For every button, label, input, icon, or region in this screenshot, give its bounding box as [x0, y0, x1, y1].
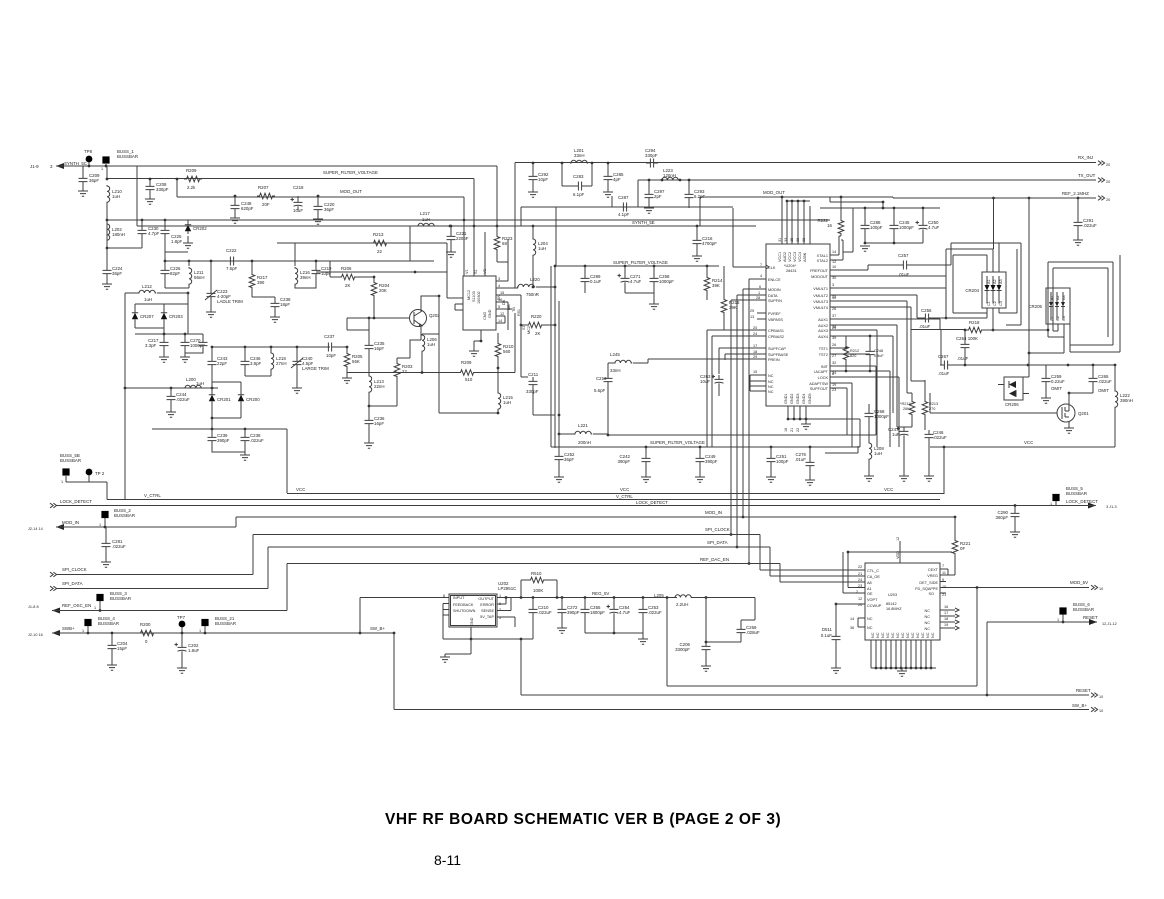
svg-text:.01uF: .01uF	[919, 324, 931, 329]
wire staircase right of rail	[825, 419, 860, 453]
junction TP8	[88, 165, 91, 168]
svg-text:TP7: TP7	[177, 615, 186, 620]
IC U204 box	[766, 244, 830, 406]
svg-text:CR207: CR207	[140, 314, 154, 319]
svg-text:GND1: GND1	[784, 393, 788, 404]
svg-text:CND: CND	[483, 312, 487, 320]
svg-text:C267: C267	[938, 354, 949, 359]
svg-text:BUSSBAR: BUSSBAR	[1066, 491, 1087, 496]
svg-text:9: 9	[942, 578, 944, 582]
U203 right pins	[940, 569, 977, 593]
svg-text:27nH: 27nH	[276, 361, 287, 366]
wire collector bus	[439, 296, 498, 413]
svg-text:R220: R220	[531, 314, 542, 319]
svg-text:AUX2: AUX2	[818, 324, 828, 328]
capacitor C287 4.1pF	[637, 180, 639, 207]
resistor R510 100K	[521, 580, 528, 598]
capacitor C264 .01uF	[964, 330, 966, 340]
wire XTAL cap rail	[820, 208, 940, 252]
svg-text:22: 22	[377, 249, 382, 254]
svg-text:39K: 39K	[712, 283, 720, 288]
svg-text:C248: C248	[874, 349, 883, 353]
U202 left pin stubs	[443, 604, 449, 640]
svg-text:56K: 56K	[352, 359, 360, 364]
svg-text:RESET: RESET	[1076, 688, 1091, 693]
wire RESET vertical	[986, 622, 988, 695]
svg-text:XTAL2: XTAL2	[817, 259, 828, 263]
svg-text:C1: C1	[987, 301, 991, 306]
svg-text:2: 2	[856, 590, 858, 594]
svg-text:NC: NC	[871, 632, 875, 638]
pin DATA	[737, 295, 766, 547]
wire L200 rail	[125, 387, 218, 389]
svg-text:22pF: 22pF	[217, 361, 227, 366]
svg-text:15: 15	[753, 370, 757, 374]
svg-text:1: 1	[1050, 502, 1052, 506]
wire cap row bottom	[865, 242, 923, 244]
transistor Q201 MOSFET	[1057, 404, 1075, 422]
svg-text:VREG: VREG	[927, 574, 938, 578]
capacitor C225 1.8pF	[164, 220, 166, 226]
svg-text:NC: NC	[881, 632, 885, 638]
diode CR202	[185, 222, 191, 234]
svg-text:10: 10	[1099, 709, 1103, 713]
svg-text:A3: A3	[1062, 295, 1066, 300]
bussbar BUSS_21	[201, 619, 208, 626]
svg-text:18: 18	[944, 617, 948, 621]
inductor L201 33nH	[570, 160, 588, 163]
svg-text:21: 21	[790, 428, 794, 432]
svg-text:VHF RF BOARD SCHEMATIC VER B (: VHF RF BOARD SCHEMATIC VER B (PAGE 2 OF …	[385, 811, 781, 828]
svg-text:14: 14	[498, 319, 502, 323]
svg-text:0.1uF: 0.1uF	[821, 633, 833, 638]
svg-text:NC: NC	[891, 632, 895, 638]
svg-text:12,J1-12: 12,J1-12	[1102, 622, 1117, 626]
svg-text:1: 1	[82, 629, 84, 633]
capacitor C216 4700pF	[696, 226, 698, 236]
svg-text:LOCK_DETECT: LOCK_DETECT	[1066, 499, 1098, 504]
svg-text:390pF: 390pF	[618, 459, 631, 464]
svg-text:11: 11	[832, 296, 836, 300]
svg-text:NC: NC	[876, 632, 880, 638]
svg-text:A1: A1	[867, 587, 872, 591]
pin MODIN	[743, 289, 766, 517]
pin PVREF	[757, 312, 766, 314]
svg-text:AUX4: AUX4	[818, 335, 828, 339]
svg-text:VCC: VCC	[296, 487, 305, 492]
wire VCC rail	[287, 493, 944, 495]
ground C238	[274, 311, 276, 317]
pin AUX2	[830, 325, 904, 427]
svg-text:5: 5	[498, 305, 500, 309]
svg-text:16: 16	[784, 428, 788, 432]
svg-text:0.22uF: 0.22uF	[1051, 379, 1065, 384]
wire right bus pair	[555, 266, 559, 448]
wire L212 left leg down	[125, 293, 139, 500]
svg-text:MOD_5V: MOD_5V	[1070, 580, 1088, 585]
svg-text:R213: R213	[929, 402, 938, 406]
svg-text:FREFOUT: FREFOUT	[810, 269, 829, 273]
svg-text:21: 21	[858, 572, 862, 576]
svg-text:*R211*: *R211*	[900, 402, 912, 406]
capacitor C221 220pF	[450, 226, 452, 232]
capacitor C255 1800pF	[584, 598, 586, 606]
svg-text:.022uF: .022uF	[1083, 223, 1097, 228]
svg-text:VCC: VCC	[620, 487, 629, 492]
svg-text:SYNTH_5C: SYNTH_5C	[64, 161, 87, 166]
wire SYNTH_5C / RX_INJ top rail	[56, 166, 497, 226]
inductor L213 22nH	[369, 375, 372, 393]
svg-text:SUPFBASE: SUPFBASE	[768, 353, 789, 357]
svg-text:C2: C2	[993, 301, 997, 306]
pin CLK	[733, 208, 766, 267]
svg-text:S1103: S1103	[472, 291, 476, 302]
svg-text:4.7uF: 4.7uF	[630, 279, 642, 284]
wire loop rails around CR205	[1048, 255, 1120, 352]
svg-text:C213: C213	[596, 376, 607, 381]
ground cap row	[860, 246, 870, 251]
svg-text:1: 1	[94, 606, 96, 610]
svg-text:1uH: 1uH	[427, 342, 435, 347]
diode CR201	[211, 388, 213, 392]
svg-text:R212: R212	[850, 349, 859, 353]
U203 left pin wires	[760, 552, 952, 604]
svg-text:12: 12	[832, 260, 836, 264]
svg-text:NC: NC	[896, 632, 900, 638]
svg-text:4: 4	[760, 274, 762, 278]
svg-text:SENSE: SENSE	[481, 609, 494, 613]
svg-text:VDD: VDD	[896, 551, 900, 559]
svg-text:10: 10	[942, 585, 946, 589]
svg-text:100302: 100302	[477, 291, 481, 304]
wire L210 to VCO top rail	[106, 203, 108, 260]
svg-text:1uH: 1uH	[538, 246, 546, 251]
svg-text:0.9uF: 0.9uF	[874, 354, 884, 358]
svg-text:VOPT: VOPT	[867, 598, 878, 602]
capacitor C291 .022uF	[1077, 198, 1079, 218]
svg-text:3 J1-3: 3 J1-3	[1106, 505, 1117, 509]
capacitor C248 0.9uF	[869, 336, 871, 347]
svg-text:NC: NC	[925, 609, 931, 613]
resistor R209 2.2k	[184, 176, 202, 182]
capacitor C213 5.6pF	[604, 374, 613, 386]
inductor L222 390nH	[1114, 365, 1116, 390]
svg-text:C218: C218	[293, 185, 304, 190]
inductor L220 750nR	[515, 287, 518, 289]
svg-text:20: 20	[1106, 198, 1110, 202]
svg-text:31: 31	[778, 238, 782, 242]
capacitor C243 22pF	[211, 347, 213, 357]
svg-text:3.9pF: 3.9pF	[250, 361, 262, 366]
svg-text:20: 20	[1106, 163, 1110, 167]
svg-text:18: 18	[753, 350, 757, 354]
wire U201 pin vertical x521	[521, 295, 528, 377]
svg-text:32: 32	[832, 361, 836, 365]
svg-text:10: 10	[1099, 695, 1103, 699]
U201 ground stub	[474, 330, 481, 351]
bussbar BUSS_1	[102, 156, 109, 163]
svg-text:12: 12	[858, 597, 862, 601]
svg-text:V1: V1	[465, 269, 469, 274]
varactor CR205 box	[1046, 288, 1070, 324]
svg-text:C222: C222	[226, 248, 237, 253]
svg-text:OUTPUT: OUTPUT	[478, 597, 494, 601]
svg-text:1: 1	[199, 629, 201, 633]
wire R218 rail to C267 rail	[940, 330, 942, 366]
svg-text:RX_INJ: RX_INJ	[1078, 155, 1093, 160]
svg-text:A2: A2	[993, 279, 997, 284]
wire U204 top pin drops	[782, 197, 810, 244]
svg-text:.022uF: .022uF	[112, 544, 126, 549]
svg-text:NC: NC	[867, 626, 873, 630]
svg-text:SUPER_FILTER_VOLTAGE: SUPER_FILTER_VOLTAGE	[650, 440, 705, 445]
resistor R217 390	[251, 261, 253, 272]
svg-text:GND2: GND2	[790, 393, 794, 404]
capacitor C204 15pF	[111, 633, 113, 641]
capacitor C208 330pF	[149, 179, 151, 182]
svg-text:BUSSBAR: BUSSBAR	[215, 621, 236, 626]
wire REG_5V down branch	[667, 598, 977, 687]
svg-text:BUSSBAR: BUSSBAR	[110, 596, 131, 601]
CR205 diodes	[1049, 302, 1065, 307]
resistor R215 39K	[723, 266, 725, 297]
capacitor C217 3.3pF	[163, 334, 165, 338]
svg-text:330pF: 330pF	[156, 187, 169, 192]
svg-text:36: 36	[796, 238, 800, 242]
capacitor C297 2pF	[648, 180, 650, 190]
svg-text:4700pF: 4700pF	[702, 241, 717, 246]
svg-text:11: 11	[942, 571, 946, 575]
svg-text:4.7pF: 4.7pF	[148, 231, 160, 236]
svg-text:220pF: 220pF	[456, 236, 469, 241]
svg-text:SW_B+: SW_B+	[370, 626, 385, 631]
svg-text:D511: D511	[822, 627, 833, 632]
svg-text:1uH: 1uH	[874, 451, 882, 456]
svg-text:33nH: 33nH	[574, 153, 585, 158]
ground C209	[82, 186, 84, 191]
svg-text:85142: 85142	[886, 602, 897, 606]
wire loops below CR204	[953, 198, 1017, 330]
wire C267 rail	[952, 364, 1115, 366]
bussbar BUSS_6	[1059, 607, 1066, 614]
svg-text:30: 30	[832, 276, 836, 280]
svg-text:FEEDBACK: FEEDBACK	[453, 603, 474, 607]
wire branch to L210	[107, 166, 474, 226]
capacitor C263 10uF	[712, 375, 724, 387]
wire pin15 long up	[514, 230, 516, 288]
pin ADAPTSW	[830, 383, 852, 447]
svg-text:VCC3: VCC3	[793, 252, 797, 262]
capacitor C249 390pF	[699, 447, 701, 454]
svg-text:SYNTH_5E: SYNTH_5E	[632, 220, 655, 225]
svg-text:39: 39	[832, 336, 836, 340]
U203 bottom pins	[871, 640, 931, 668]
resistor R219 910	[497, 333, 499, 342]
svg-text:1: 1	[101, 167, 103, 171]
svg-text:GND3: GND3	[796, 393, 800, 404]
svg-text:L245: L245	[610, 352, 620, 357]
svg-text:.01uF: .01uF	[957, 356, 969, 361]
resistor R205 56K	[346, 347, 348, 351]
svg-text:OMIT: OMIT	[1051, 386, 1062, 391]
capacitor C252 36pF	[558, 434, 560, 452]
svg-text:R510: R510	[531, 571, 542, 576]
resistor R212 820	[845, 347, 848, 350]
svg-text:15pF: 15pF	[117, 646, 127, 651]
svg-text:CR206: CR206	[1005, 402, 1019, 407]
pin AUX1	[830, 319, 940, 330]
connector arrow J1-9	[56, 163, 64, 169]
svg-text:NC: NC	[768, 385, 774, 389]
svg-text:12: 12	[500, 312, 504, 316]
svg-text:33nH: 33nH	[610, 368, 621, 373]
capacitor C219 10pF	[315, 261, 317, 266]
resistor R200	[138, 630, 156, 636]
svg-text:NC: NC	[768, 374, 774, 378]
svg-text:NC: NC	[768, 380, 774, 384]
wire SWB+ rail	[52, 632, 394, 634]
svg-text:1000pF: 1000pF	[874, 414, 889, 419]
svg-text:A1: A1	[987, 279, 991, 284]
svg-text:VCC2: VCC2	[788, 252, 792, 262]
svg-text:.01uF: .01uF	[795, 457, 807, 462]
svg-text:CR205: CR205	[1028, 304, 1042, 309]
svg-text:24: 24	[858, 578, 862, 582]
svg-text:FD_SQAPPE: FD_SQAPPE	[915, 587, 938, 591]
svg-text:SUPER_FILTER_VOLTAGE: SUPER_FILTER_VOLTAGE	[613, 260, 668, 265]
svg-text:A1: A1	[1050, 295, 1054, 300]
ground U204	[805, 419, 807, 424]
svg-text:DA: DA	[502, 299, 506, 305]
svg-text:GND: GND	[470, 617, 474, 626]
svg-text:J1-8 8: J1-8 8	[28, 605, 39, 609]
capacitor C294 330pF series on rail	[646, 159, 658, 168]
capacitor C289 0.1uF	[584, 266, 586, 274]
svg-text:10uF: 10uF	[700, 379, 710, 384]
wire Q201 gate	[930, 393, 1057, 413]
svg-text:120nH: 120nH	[663, 173, 676, 178]
svg-text:2pF: 2pF	[654, 194, 662, 199]
svg-text:CA_OE: CA_OE	[867, 575, 880, 579]
svg-text:EN: EN	[497, 294, 501, 300]
svg-text:22nH: 22nH	[374, 384, 385, 389]
bussbar BUSS_4	[84, 619, 91, 626]
capacitor C247 1uF	[897, 427, 909, 439]
resistor R204 20K	[373, 277, 375, 280]
svg-text:MOD_IN: MOD_IN	[705, 510, 722, 515]
svg-text:L205: L205	[654, 593, 664, 598]
U203 top pin VDD	[899, 541, 901, 563]
svg-text:2.2k: 2.2k	[187, 185, 196, 190]
capacitor C245 1000pF	[893, 208, 895, 221]
ground C248	[234, 213, 236, 218]
wire R213 rail	[277, 243, 447, 261]
svg-text:R206: R206	[341, 266, 352, 271]
svg-text:NC: NC	[931, 632, 935, 638]
svg-text:100pF: 100pF	[776, 459, 789, 464]
capacitor C218 10uF electrolytic	[297, 196, 299, 198]
wire resonator mid rail	[212, 346, 330, 348]
svg-text:26: 26	[832, 307, 836, 311]
resistor R207 20F	[257, 193, 275, 199]
svg-text:ENLCE: ENLCE	[768, 278, 781, 282]
svg-text:VMULT4: VMULT4	[813, 306, 828, 310]
svg-text:NC: NC	[916, 632, 920, 638]
U203 NC left pins	[858, 618, 865, 627]
svg-text:R209: R209	[461, 360, 472, 365]
svg-text:R200: R200	[140, 622, 151, 627]
wire RESET bottom vertical	[521, 639, 1089, 695]
pin XTAL2	[830, 240, 843, 260]
svg-text:CPBIAS1: CPBIAS1	[768, 329, 784, 333]
svg-text:5V_TAP: 5V_TAP	[480, 615, 494, 619]
svg-text:NC: NC	[867, 617, 873, 621]
svg-text:23: 23	[832, 388, 836, 392]
svg-text:VCC: VCC	[1024, 440, 1033, 445]
ground U203	[901, 668, 903, 671]
capacitor C270 1000pF	[184, 334, 186, 338]
svg-text:MC2: MC2	[527, 326, 531, 334]
svg-text:C1: C1	[1050, 316, 1054, 321]
transistor Q202	[410, 310, 427, 327]
svg-text:4.1pF: 4.1pF	[618, 212, 630, 217]
svg-text:.022uF: .022uF	[648, 610, 662, 615]
svg-text:200nH: 200nH	[578, 440, 591, 445]
svg-text:7: 7	[760, 263, 762, 267]
svg-text:C211: C211	[528, 372, 539, 377]
svg-text:BUSSBAR: BUSSBAR	[117, 154, 138, 159]
svg-text:22: 22	[858, 565, 862, 569]
svg-text:100K: 100K	[533, 588, 543, 593]
svg-text:SO: SO	[929, 592, 935, 596]
wire SPI_DATA rail	[56, 547, 865, 589]
svg-text:3: 3	[498, 277, 500, 281]
svg-text:26K: 26K	[903, 407, 910, 411]
wire SPI_CLOCK rail	[56, 535, 865, 575]
svg-text:A2: A2	[1056, 295, 1060, 300]
svg-text:.022uF: .022uF	[176, 397, 190, 402]
svg-text:OE: OE	[867, 592, 873, 596]
capacitor C238 18pF	[274, 297, 276, 299]
svg-text:1: 1	[99, 523, 101, 527]
svg-text:L212: L212	[142, 284, 152, 289]
svg-text:10pF: 10pF	[326, 353, 336, 358]
capacitor D511 0.1uF	[835, 603, 838, 606]
svg-text:C283: C283	[573, 174, 584, 179]
resistor R201 510	[347, 352, 458, 373]
svg-text:SUPFOUT: SUPFOUT	[810, 387, 829, 391]
svg-text:1: 1	[758, 291, 760, 295]
svg-text:3300pF: 3300pF	[675, 647, 690, 652]
svg-text:18pF: 18pF	[280, 302, 290, 307]
svg-text:390pF: 390pF	[217, 438, 230, 443]
svg-text:14: 14	[850, 617, 854, 621]
svg-text:*U204*: *U204*	[784, 264, 797, 268]
svg-text:REF_OSC_EN: REF_OSC_EN	[62, 603, 91, 608]
pin FREFOUT	[830, 265, 899, 270]
inductor L245 33nH with C213	[633, 359, 648, 363]
svg-text:NC: NC	[901, 632, 905, 638]
capacitor C224 36pF	[106, 248, 108, 266]
svg-text:4: 4	[498, 284, 500, 288]
svg-text:NC: NC	[911, 632, 915, 638]
svg-text:NC: NC	[921, 632, 925, 638]
inductor L216 39nH	[294, 261, 296, 266]
diode pair CR206	[1004, 377, 1023, 400]
svg-text:14: 14	[832, 250, 836, 254]
svg-text:5.6pF: 5.6pF	[594, 388, 606, 393]
svg-text:SPI_CLOCK: SPI_CLOCK	[705, 527, 730, 532]
